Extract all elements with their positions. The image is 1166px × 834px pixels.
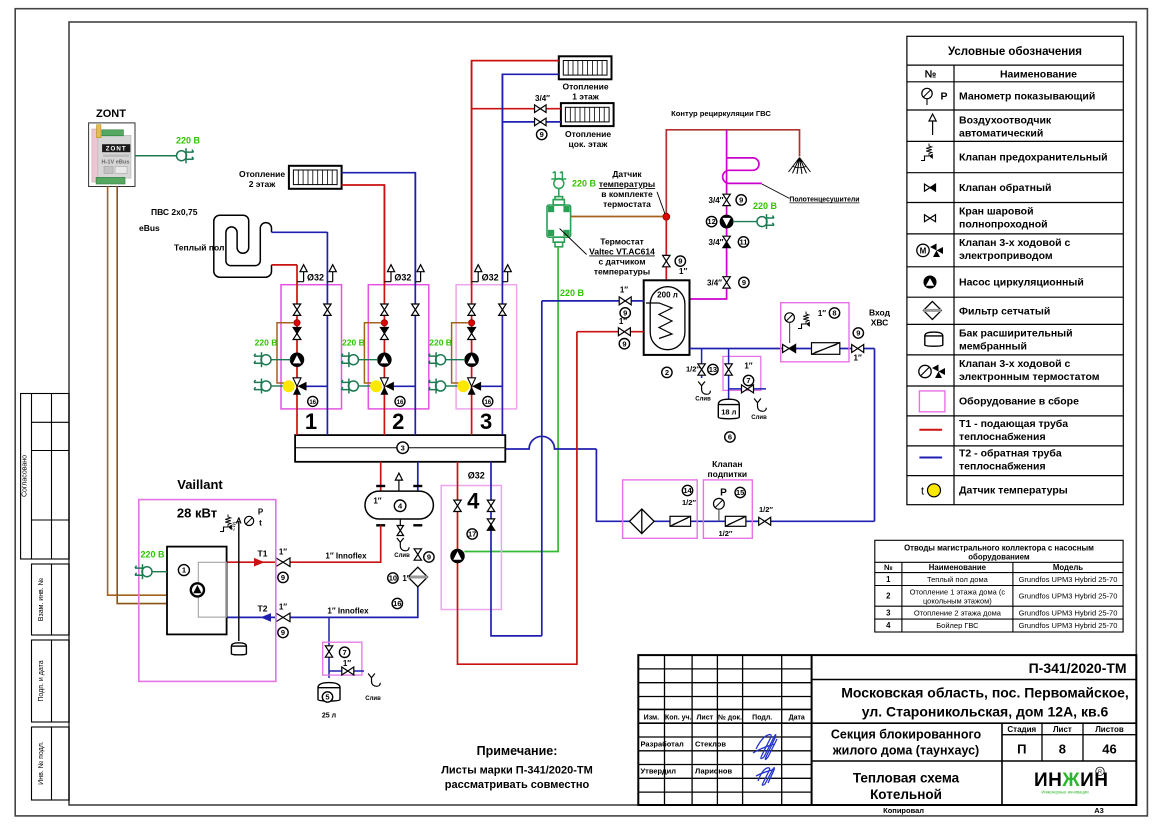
svg-text:1 этаж: 1 этаж xyxy=(572,92,600,102)
label circle 9 T1 xyxy=(278,572,288,582)
safety valve boiler xyxy=(220,514,232,531)
svg-text:Теплый пол: Теплый пол xyxy=(174,243,224,253)
equipment box circuit 4 xyxy=(441,486,501,610)
legend icon safety valve xyxy=(921,144,933,161)
pipe 3way link blue circuit 2 xyxy=(392,385,415,387)
drain sliv hydrosep xyxy=(397,538,409,551)
svg-text:7: 7 xyxy=(343,648,347,657)
wire floor return blue xyxy=(272,231,328,233)
svg-text:1″ Innoflex: 1″ Innoflex xyxy=(327,607,369,616)
wire ZONT 220V xyxy=(135,155,177,157)
svg-text:Слив: Слив xyxy=(695,397,711,403)
pipe T2 blue xyxy=(227,587,418,617)
svg-text:1/2″: 1/2″ xyxy=(686,365,700,374)
svg-text:ZONT: ZONT xyxy=(106,146,127,153)
svg-text:2 этаж: 2 этаж xyxy=(249,179,277,189)
collector xyxy=(295,435,505,462)
svg-text:1″: 1″ xyxy=(679,267,687,276)
svg-text:Кран шаровой: Кран шаровой xyxy=(959,206,1034,218)
svg-text:П-341/2020-ТМ: П-341/2020-ТМ xyxy=(1029,660,1127,676)
label circle 9 recirc bottom xyxy=(739,277,749,287)
power plug boiler xyxy=(135,564,152,579)
label circle 12 xyxy=(706,216,716,226)
svg-text:Т1 - подающая труба: Т1 - подающая труба xyxy=(959,418,1068,430)
pump circuit 4 xyxy=(451,550,464,563)
svg-text:Московская область, пос. Перво: Московская область, пос. Первомайское, xyxy=(841,685,1129,701)
power plug circuit 3 sensor xyxy=(429,379,446,394)
label circle 1 boiler xyxy=(178,565,189,576)
svg-text:1″: 1″ xyxy=(818,309,826,318)
svg-text:№: № xyxy=(884,563,893,572)
svg-text:9: 9 xyxy=(856,329,860,338)
pipe supply basement red xyxy=(472,108,561,110)
pipe 18L drain xyxy=(729,388,766,390)
label circle 9 T2 xyxy=(278,627,288,637)
stamp box Soglasovano xyxy=(21,394,69,560)
wire boiler 220V xyxy=(152,571,167,573)
svg-text:12: 12 xyxy=(707,217,715,226)
svg-text:8: 8 xyxy=(832,309,836,318)
pipe circuit 3 supply red xyxy=(471,61,473,436)
svg-text:4: 4 xyxy=(467,489,480,514)
equipment box safety group xyxy=(781,303,849,362)
leader datchik xyxy=(657,192,665,214)
svg-text:Слив: Слив xyxy=(751,415,767,421)
svg-text:9: 9 xyxy=(427,553,431,562)
wire sensor brown circuit 1 xyxy=(277,323,294,383)
svg-text:t: t xyxy=(921,486,924,498)
svg-text:8: 8 xyxy=(1059,742,1066,757)
svg-text:Взам. инв. №: Взам. инв. № xyxy=(38,578,45,621)
sensor dot circuit 3 xyxy=(469,320,475,326)
signature scribble xyxy=(753,735,777,786)
label circle 9 cold inlet xyxy=(853,328,863,338)
flange hydrosep top blue xyxy=(413,485,422,487)
label circle 9 DHW top xyxy=(675,256,685,266)
svg-text:в комплекте: в комплекте xyxy=(601,189,653,199)
svg-text:1″ Innoflex: 1″ Innoflex xyxy=(325,551,367,560)
leader termostat xyxy=(560,229,587,255)
svg-text:ZONT: ZONT xyxy=(96,108,126,120)
valve circuit 2 return xyxy=(412,304,419,315)
wire thermostat sensor brown xyxy=(571,216,663,218)
temperature sensor circuit 1 xyxy=(283,380,295,392)
tank 18L xyxy=(718,399,739,419)
svg-text:Примечание:: Примечание: xyxy=(477,744,558,758)
svg-text:18 л: 18 л xyxy=(721,408,736,417)
svg-text:Клапан: Клапан xyxy=(712,459,742,469)
check valve recirc 3/4 xyxy=(723,236,730,247)
svg-text:220 В: 220 В xyxy=(176,136,201,146)
svg-text:16: 16 xyxy=(309,400,316,406)
3-way valve circuit 1 xyxy=(293,378,307,395)
svg-text:оборудованием: оборудованием xyxy=(968,553,1030,562)
equipment box Vaillant xyxy=(139,500,276,682)
svg-text:Клапан 3-х ходовой с: Клапан 3-х ходовой с xyxy=(959,237,1070,249)
svg-text:9: 9 xyxy=(281,628,285,637)
boiler inner chamber xyxy=(198,562,226,617)
svg-text:полнопроходной: полнопроходной xyxy=(959,219,1048,231)
drain sliv 2 xyxy=(754,399,766,412)
svg-text:цокольным этажом): цокольным этажом) xyxy=(923,597,992,606)
svg-text:1″: 1″ xyxy=(373,497,381,506)
valve recirc 3/4 top xyxy=(723,194,730,205)
label circle 11 xyxy=(738,237,748,247)
stamp box Vzam inv xyxy=(32,564,70,635)
stamp box Inv no podl xyxy=(32,727,70,800)
radiator heating floor2 xyxy=(289,166,342,189)
svg-text:Лист: Лист xyxy=(697,715,714,722)
valve 25L drain xyxy=(342,667,354,675)
svg-text:200 л: 200 л xyxy=(657,291,678,300)
valve 18L drain xyxy=(742,385,754,393)
svg-text:температуры: температуры xyxy=(599,179,655,189)
svg-text:Отопление: Отопление xyxy=(562,82,608,92)
pipe 3way link blue circuit 1 xyxy=(305,385,327,387)
valve 18L xyxy=(725,364,732,375)
filter makeup rect2 xyxy=(725,516,746,526)
wire pump12 220V xyxy=(733,221,757,223)
svg-text:220 В: 220 В xyxy=(255,338,278,348)
svg-text:Отопление 2 этажа дома: Отопление 2 этажа дома xyxy=(914,608,1002,617)
stamp box Podp i data xyxy=(32,640,70,722)
svg-text:1″: 1″ xyxy=(620,286,628,295)
air vent boiler xyxy=(237,518,241,524)
svg-text:Т2 - обратная труба: Т2 - обратная труба xyxy=(959,448,1062,460)
svg-text:жилого дома (таунхаус): жилого дома (таунхаус) xyxy=(832,744,979,758)
svg-text:Инв. № подл.: Инв. № подл. xyxy=(38,741,45,785)
svg-text:Дата: Дата xyxy=(789,715,805,722)
sensor dot circuit 2 xyxy=(381,320,387,326)
valve cold inlet xyxy=(852,345,864,353)
legend icon 3way thermo xyxy=(919,365,945,379)
svg-text:Ларионов: Ларионов xyxy=(695,767,733,776)
wire plug pump circuit 2 xyxy=(358,359,378,361)
pipe T1 red xyxy=(227,525,381,562)
svg-text:Утвердил: Утвердил xyxy=(641,767,677,776)
wire plug sensor circuit 3 xyxy=(446,385,458,387)
svg-text:Коп. уч.: Коп. уч. xyxy=(665,715,692,722)
valve circuit 4 supply xyxy=(454,500,461,511)
svg-text:Вход: Вход xyxy=(869,308,891,318)
flange hydrosep bot red xyxy=(376,524,385,526)
power plug circuit 1 pump xyxy=(254,352,271,367)
boiler body xyxy=(167,547,227,635)
towel dryer coil xyxy=(723,158,762,184)
pipe cold water blue xyxy=(690,348,875,350)
power plug circuit 2 pump xyxy=(341,352,358,367)
svg-text:Слив: Слив xyxy=(365,696,381,702)
pipe recirc magenta vertical xyxy=(690,130,727,299)
pipe supply floor2 red xyxy=(342,185,385,285)
svg-text:Т1: Т1 xyxy=(258,549,268,559)
svg-text:25 л: 25 л xyxy=(322,713,336,720)
svg-text:Grundfos UPM3 Hybrid 25-70: Grundfos UPM3 Hybrid 25-70 xyxy=(1019,592,1118,601)
svg-text:Valtec VT.AC614: Valtec VT.AC614 xyxy=(589,247,655,257)
valve T2 xyxy=(276,613,290,622)
svg-text:мембранный: мембранный xyxy=(959,341,1027,353)
power plug circuit 3 pump xyxy=(429,352,446,367)
svg-text:220 В: 220 В xyxy=(429,338,452,348)
air vent circuit 3 supply xyxy=(472,281,479,283)
pipe recirc top red xyxy=(666,130,799,217)
svg-text:Наименование: Наименование xyxy=(929,563,987,572)
svg-text:16: 16 xyxy=(484,400,491,406)
svg-text:Полотенцесушители: Полотенцесушители xyxy=(789,197,859,204)
power plug thermostat xyxy=(551,172,566,189)
wire plug pump circuit 1 xyxy=(271,359,291,361)
logo INZHIN xyxy=(1034,767,1108,794)
power plug circuit 1 sensor xyxy=(254,379,271,394)
svg-text:Контур рециркуляции ГВС: Контур рециркуляции ГВС xyxy=(671,109,771,118)
motor 3-way valve circuit 1 xyxy=(293,328,301,340)
legend icon ball valve xyxy=(925,215,936,222)
temperature sensor circuit 2 xyxy=(370,380,382,392)
pipe supply floor1 red xyxy=(472,61,559,285)
hydro separator vessel xyxy=(365,491,433,519)
svg-text:рассматривать совместно: рассматривать совместно xyxy=(445,779,590,791)
equipment box makeup filter xyxy=(623,480,698,538)
filter T2 diamond xyxy=(408,567,428,587)
svg-text:1″: 1″ xyxy=(402,574,410,583)
valve makeup 1/2 xyxy=(759,517,771,525)
svg-text:Тепловая схема: Тепловая схема xyxy=(853,771,960,786)
pipe tank return riser blue xyxy=(541,301,543,636)
svg-text:3/4″: 3/4″ xyxy=(709,238,724,247)
svg-text:13: 13 xyxy=(709,365,717,374)
pipe hydrosep red xyxy=(380,462,382,491)
arrow T2 xyxy=(261,613,272,622)
air vent circuit 3 return xyxy=(502,281,507,283)
svg-text:Наименование: Наименование xyxy=(1000,69,1077,81)
svg-text:46: 46 xyxy=(1102,742,1116,757)
svg-text:Ø32: Ø32 xyxy=(468,471,485,481)
pipe circuit 1 return blue xyxy=(326,232,328,435)
pipe circuit 3 return blue xyxy=(501,74,503,435)
otvody table grid xyxy=(875,540,1123,632)
legend icon T2 xyxy=(919,457,942,459)
svg-text:R: R xyxy=(1098,770,1102,776)
svg-text:Vaillant: Vaillant xyxy=(177,477,223,492)
valve 25L xyxy=(325,646,332,657)
svg-text:Условные обозначения: Условные обозначения xyxy=(948,46,1082,58)
label circle 17 xyxy=(467,529,477,539)
svg-text:2: 2 xyxy=(886,592,891,601)
pump circuit 3 xyxy=(465,353,478,366)
wire plug pump circuit 3 xyxy=(446,359,466,361)
hydrosep drain stub xyxy=(399,519,401,531)
label circle 9 tank red xyxy=(619,339,629,349)
power plug pump12 xyxy=(757,214,774,229)
equipment box 18L xyxy=(723,356,761,390)
svg-text:Датчик температуры: Датчик температуры xyxy=(959,485,1068,497)
valve tank coil supply xyxy=(618,328,630,336)
label circle 16 circuit 2 xyxy=(395,396,405,406)
svg-text:Т2: Т2 xyxy=(258,604,268,614)
svg-text:цок. этаж: цок. этаж xyxy=(569,139,609,149)
svg-text:5: 5 xyxy=(325,693,329,702)
gauge makeup P xyxy=(714,498,725,521)
label circle 9 recirc top xyxy=(736,195,746,205)
3-way valve circuit 3 xyxy=(468,378,482,395)
svg-text:220 В: 220 В xyxy=(342,338,365,348)
svg-text:3: 3 xyxy=(480,409,492,434)
svg-text:1″: 1″ xyxy=(343,659,351,668)
svg-text:Лист: Лист xyxy=(1053,725,1072,734)
legend icon strainer xyxy=(923,301,941,319)
drain sliv 1 xyxy=(698,382,710,395)
svg-text:1″: 1″ xyxy=(854,354,862,363)
svg-text:220 В: 220 В xyxy=(140,550,165,560)
svg-text:2: 2 xyxy=(665,368,669,377)
svg-text:№: № xyxy=(925,69,937,81)
svg-text:Ø32: Ø32 xyxy=(307,273,324,283)
tank 200L coil xyxy=(646,303,672,339)
label circle 10 xyxy=(388,573,398,583)
flange hydrosep bot blue xyxy=(413,524,422,526)
pump boiler xyxy=(191,583,204,596)
pipe makeup blue xyxy=(596,449,874,521)
svg-text:Р: Р xyxy=(940,91,947,103)
valve circuit 1 return xyxy=(324,304,331,315)
svg-text:ПВС 2х0,75: ПВС 2х0,75 xyxy=(151,207,198,217)
svg-text:Отопление 1 этажа дома (с: Отопление 1 этажа дома (с xyxy=(910,588,1006,597)
svg-text:1/2″: 1/2″ xyxy=(682,498,696,507)
valve circuit 4 return xyxy=(487,500,494,511)
svg-text:1″: 1″ xyxy=(744,362,752,371)
air vent circuit 2 supply xyxy=(384,281,391,283)
svg-text:14: 14 xyxy=(683,486,692,495)
svg-text:1″: 1″ xyxy=(279,603,287,612)
svg-text:Отводы магистрального коллекто: Отводы магистрального коллектора с насос… xyxy=(904,544,1094,553)
svg-text:Стеклов: Стеклов xyxy=(695,740,726,749)
svg-text:теплоснабжения: теплоснабжения xyxy=(959,431,1046,443)
svg-text:электронным термостатом: электронным термостатом xyxy=(959,371,1100,383)
temperature sensor circuit 3 xyxy=(457,380,469,392)
svg-text:17: 17 xyxy=(468,530,476,539)
svg-text:Клапан 3-х ходовой с: Клапан 3-х ходовой с xyxy=(959,358,1070,370)
svg-text:1: 1 xyxy=(182,566,186,575)
svg-text:Стадия: Стадия xyxy=(1007,725,1036,734)
svg-text:eBus: eBus xyxy=(139,223,160,233)
svg-text:Термостат: Термостат xyxy=(600,237,644,247)
pipe drain branch xyxy=(701,349,703,379)
svg-text:Клапан обратный: Клапан обратный xyxy=(959,182,1051,194)
svg-text:Листы марки П-341/2020-ТМ: Листы марки П-341/2020-ТМ xyxy=(441,765,593,777)
wire sensor brown circuit 2 xyxy=(364,323,381,383)
svg-text:16: 16 xyxy=(393,599,401,608)
pipe 25L branch blue xyxy=(328,617,330,678)
svg-text:6: 6 xyxy=(728,433,732,442)
svg-text:3: 3 xyxy=(401,443,405,452)
flange hydrosep top red xyxy=(376,485,385,487)
check valve circuit 4 xyxy=(487,519,494,530)
svg-text:А3: А3 xyxy=(1094,806,1104,815)
label circle 4 hydrosep xyxy=(394,500,406,512)
valve drain 1/2 xyxy=(698,364,705,375)
legend icon T1 xyxy=(919,429,942,431)
svg-text:7: 7 xyxy=(746,376,750,385)
label circle 16 circuit 1 xyxy=(308,396,318,406)
legend icon manometer xyxy=(922,88,932,98)
ZONT controller device xyxy=(89,123,135,187)
label circle 14 xyxy=(682,485,692,495)
svg-text:подпитки: подпитки xyxy=(707,469,747,479)
svg-text:Разработал: Разработал xyxy=(641,740,685,749)
power plug ZONT 220V xyxy=(177,148,194,163)
svg-text:Оборудование в сборе: Оборудование в сборе xyxy=(959,395,1079,407)
legend icon airvent xyxy=(929,114,936,135)
svg-text:Инженерные инновации: Инженерные инновации xyxy=(1041,790,1089,795)
svg-text:теплоснабжения: теплоснабжения xyxy=(959,461,1046,473)
wire eBus brown 1 xyxy=(108,187,167,596)
pipe 18L branch xyxy=(728,349,730,400)
pipe return floor1 blue xyxy=(502,74,558,284)
label circle 6 xyxy=(725,432,735,442)
safety valve symbol xyxy=(798,312,810,329)
svg-text:1: 1 xyxy=(305,409,317,434)
pipe return floor2 blue xyxy=(342,173,416,285)
sensor dot circuit 1 xyxy=(294,320,300,326)
pipe 3way link blue circuit 3 xyxy=(480,385,503,387)
pump P12 recirc xyxy=(720,215,732,227)
label circle 15 xyxy=(735,487,745,497)
title block grid xyxy=(638,655,1136,805)
label circle 2 tank xyxy=(662,367,672,377)
svg-text:температуры: температуры xyxy=(594,267,650,277)
pump circuit 2 xyxy=(378,353,391,366)
svg-text:4: 4 xyxy=(886,621,891,630)
svg-text:Подп. и дата: Подп. и дата xyxy=(38,660,45,701)
equipment box circuit 2 xyxy=(368,285,429,409)
drain sliv 25L xyxy=(368,674,380,687)
svg-text:Ø32: Ø32 xyxy=(482,273,499,283)
svg-text:П: П xyxy=(1017,742,1026,757)
air vent circuit 1 return xyxy=(327,281,332,283)
legend icon equipment box xyxy=(919,391,945,412)
label circle 16 circuit 3 xyxy=(483,396,493,406)
legend icon exp tank xyxy=(925,332,943,346)
equipment box circuit 3 xyxy=(456,285,516,409)
leader towel dryers xyxy=(762,184,790,198)
equipment box circuit 1 xyxy=(281,285,342,409)
warm floor coil xyxy=(214,215,272,277)
label circle 9 basement xyxy=(537,129,547,139)
power plug circuit 2 sensor xyxy=(341,379,358,394)
svg-text:1: 1 xyxy=(886,575,891,584)
motor 3-way valve circuit 2 xyxy=(381,328,389,340)
svg-text:220 В: 220 В xyxy=(753,201,778,211)
tank 25L xyxy=(318,683,340,702)
radiator heating floor1 xyxy=(559,56,612,79)
pump circuit 1 xyxy=(291,353,304,366)
svg-text:9: 9 xyxy=(678,257,682,266)
svg-text:электроприводом: электроприводом xyxy=(959,250,1053,262)
wire plug sensor circuit 2 xyxy=(358,385,370,387)
valve basement supply 3/4 xyxy=(535,105,547,113)
thermostat Valtec body xyxy=(547,197,571,247)
svg-text:9: 9 xyxy=(622,339,626,348)
svg-text:9: 9 xyxy=(540,130,544,139)
air vent circuit 2 return xyxy=(415,281,420,283)
svg-text:Слив: Слив xyxy=(394,553,410,559)
svg-text:Отопление: Отопление xyxy=(239,169,285,179)
svg-text:Котельной: Котельной xyxy=(870,787,942,802)
svg-text:М: М xyxy=(920,247,927,256)
legend table grid xyxy=(907,36,1123,504)
legend icon 3way motor xyxy=(917,244,943,258)
svg-text:1/2″: 1/2″ xyxy=(759,505,773,514)
